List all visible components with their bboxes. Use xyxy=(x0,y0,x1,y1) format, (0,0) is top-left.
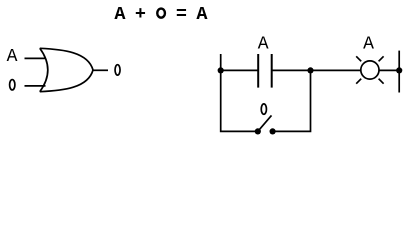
svg-text:A: A xyxy=(7,47,18,67)
svg-text:A: A xyxy=(363,34,374,54)
svg-text:A: A xyxy=(258,34,269,54)
svg-text:A + = A: A + = A xyxy=(114,4,208,25)
